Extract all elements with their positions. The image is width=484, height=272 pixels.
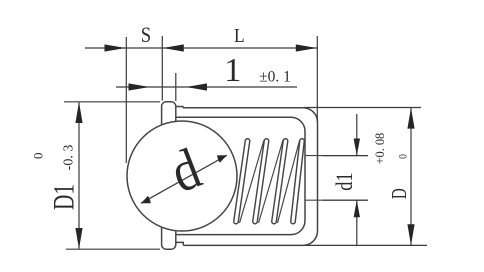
D1 top ext	[64, 101, 160, 103]
body inner bore top	[176, 117, 305, 234]
D top ext	[304, 107, 421, 109]
svg-text:S: S	[141, 24, 151, 48]
D1 top arrow	[75, 102, 82, 123]
S L dimension line	[85, 47, 317, 49]
lip collar front	[162, 102, 176, 249]
bottom tab step	[176, 242, 184, 245]
D dim line	[410, 108, 412, 245]
d1 top arrow	[354, 139, 360, 156]
dim line 1	[116, 86, 297, 88]
S left arrow	[105, 44, 126, 51]
ext line lip left top	[161, 36, 163, 101]
L right arrow	[296, 44, 317, 51]
dim 1 right arrow	[186, 83, 207, 90]
ball	[127, 121, 237, 231]
svg-text:+0. 08: +0. 08	[373, 133, 387, 165]
D1 bottom ext	[66, 248, 160, 250]
D bottom arrow	[407, 224, 414, 245]
d1 bottom arrow	[354, 200, 360, 217]
body outer outline	[183, 108, 318, 246]
d1 bottom ext	[323, 199, 369, 201]
end hole top edge	[305, 155, 368, 157]
svg-text:L: L	[234, 25, 245, 48]
D top arrow	[407, 108, 414, 129]
ext line ball left	[125, 37, 127, 163]
ext line body right top	[316, 36, 318, 122]
svg-text:d1: d1	[331, 172, 358, 190]
spring	[236, 140, 302, 223]
spring front coils outline	[236, 141, 302, 222]
dim 1 left arrow	[129, 83, 150, 90]
d1 dim line above	[356, 114, 358, 156]
D1 bottom arrow	[75, 228, 82, 249]
spring front coils inner white	[236, 141, 302, 222]
spring back coil lines	[240, 140, 300, 223]
top tab step	[176, 107, 183, 108]
ext line lip right top	[175, 73, 177, 101]
dimension graphics	[64, 36, 427, 249]
svg-text:1: 1	[224, 52, 241, 89]
svg-text:0: 0	[30, 152, 45, 159]
arrows	[75, 44, 414, 249]
D bottom ext	[304, 244, 427, 246]
svg-text:-0. 3: -0. 3	[61, 145, 76, 171]
S right / L left arrow	[163, 44, 184, 51]
d1 dim line below	[356, 200, 358, 245]
svg-text:0: 0	[397, 154, 410, 159]
d arrow lower left	[141, 196, 151, 203]
D1 dim line	[78, 103, 80, 249]
svg-text:D1: D1	[47, 184, 80, 210]
svg-text:D: D	[388, 188, 411, 199]
d arrow upper right	[217, 155, 227, 162]
svg-text:±0. 1: ±0. 1	[259, 69, 291, 86]
d diameter line	[141, 155, 227, 203]
d1 top ext	[323, 155, 369, 157]
end hole bottom edge	[305, 199, 368, 201]
